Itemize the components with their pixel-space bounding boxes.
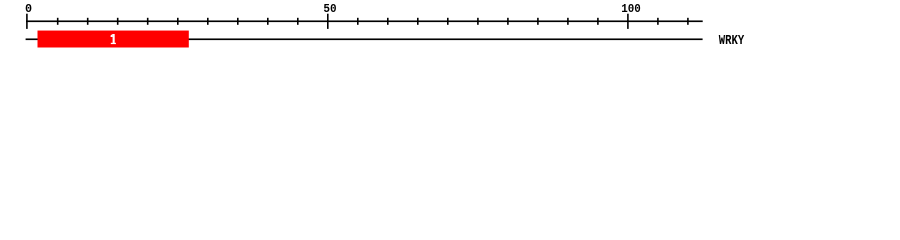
- major tick 50: [327, 14, 329, 29]
- minor tick 5: [57, 18, 59, 25]
- minor tick 105: [657, 18, 659, 25]
- minor tick 60: [387, 18, 389, 25]
- minor tick 40: [267, 18, 269, 25]
- minor tick 15: [117, 18, 119, 25]
- major tick 0: [26, 14, 28, 29]
- minor tick 75: [477, 18, 479, 25]
- minor tick 110: [687, 18, 689, 25]
- minor tick 65: [417, 18, 419, 25]
- minor tick 20: [147, 18, 149, 25]
- svg-text:WRKY: WRKY: [719, 34, 745, 49]
- background: [0, 0, 900, 58]
- minor tick 85: [537, 18, 539, 25]
- svg-text:100: 100: [621, 2, 641, 16]
- minor tick 90: [567, 18, 569, 25]
- domain label 1 (white digit drawn as paths): [111, 34, 116, 44]
- major tick 100: [627, 14, 629, 29]
- minor tick 95: [597, 18, 599, 25]
- svg-text:50: 50: [323, 2, 336, 16]
- svg-text:0: 0: [25, 2, 32, 16]
- domain box 1 (WRKY domain, red): [38, 31, 189, 48]
- protein domain ruler diagram: [0, 0, 900, 58]
- minor tick 70: [447, 18, 449, 25]
- minor tick 35: [237, 18, 239, 25]
- minor tick 80: [507, 18, 509, 25]
- protein backbone line: [26, 38, 703, 40]
- minor tick 30: [207, 18, 209, 25]
- minor tick 10: [87, 18, 89, 25]
- minor tick 55: [357, 18, 359, 25]
- minor tick 45: [297, 18, 299, 25]
- ruler axis line: [26, 20, 703, 22]
- minor tick 25: [177, 18, 179, 25]
